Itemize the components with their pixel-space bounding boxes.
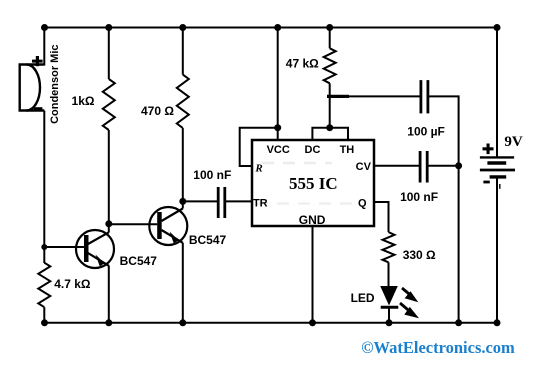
wire left rail middle (mic to 4.7k) — [43, 111, 45, 264]
capacitor C2 100uF — [421, 80, 428, 113]
wire LED to bottom rail — [388, 307, 390, 323]
node top rail 1k — [105, 24, 112, 31]
wire 1k top (rail to resistor) — [108, 28, 110, 80]
capacitor C1 100nF — [218, 187, 225, 218]
wire C3 to right vertical — [427, 165, 458, 167]
wire Q2 emitter to bottom rail — [182, 243, 184, 323]
wire 470 top (rail to resistor) — [182, 28, 184, 75]
wire 330 to LED — [388, 262, 390, 286]
wire VCC line to top rail — [277, 28, 279, 141]
svg-text:1kΩ: 1kΩ — [72, 94, 95, 108]
svg-text:DC: DC — [305, 144, 321, 156]
op-amp/timer U1 555 IC body — [252, 140, 374, 226]
node bottom rail 1k — [105, 319, 112, 326]
svg-text:4.7 kΩ: 4.7 kΩ — [54, 277, 91, 291]
node bottom rail LED — [386, 319, 393, 326]
wire CV pin to C3 — [374, 165, 420, 167]
node bottom rail C right — [455, 319, 462, 326]
svg-text:LED: LED — [351, 291, 375, 305]
wire Q1 base from left rail — [44, 246, 84, 248]
svg-text:R: R — [254, 163, 262, 175]
node bottom rail GND — [309, 319, 316, 326]
mic plus label — [32, 56, 43, 66]
resistor R2 470 — [177, 75, 189, 128]
wire Q2 base from 1k junction — [109, 223, 157, 225]
node junction Q2 collector / 470 / C1 — [179, 198, 186, 205]
svg-text:100 nF: 100 nF — [193, 168, 231, 182]
node bottom rail battery — [494, 319, 501, 326]
svg-text:TR: TR — [253, 198, 268, 210]
LED D1 — [380, 286, 398, 307]
battery plus label — [483, 144, 494, 155]
battery minus label — [483, 181, 489, 184]
svg-text:GND: GND — [299, 213, 326, 227]
battery stray tick — [499, 184, 501, 189]
wire 470 bottom to collector junction — [182, 128, 184, 201]
capacitor C3 100nF — [420, 151, 427, 183]
wire C2 to right vertical — [428, 96, 459, 322]
svg-text:BC547: BC547 — [120, 254, 158, 268]
node junction 1k / Q2 base — [105, 220, 112, 227]
svg-text:TH: TH — [340, 144, 355, 156]
transistor Q1 BC547 — [76, 230, 114, 268]
node top rail 470 — [179, 24, 186, 31]
wire DC-TH bracket — [312, 128, 348, 140]
svg-text:Q: Q — [358, 198, 367, 210]
svg-text:470 Ω: 470 Ω — [141, 104, 174, 118]
node top rail right corner — [494, 24, 501, 31]
ghost dash upper (faint) — [262, 162, 332, 165]
wire GND pin to bottom rail — [312, 226, 314, 323]
wire R pin loop to VCC line — [240, 128, 278, 166]
svg-text:CV: CV — [356, 161, 372, 173]
wire junction to C1 — [183, 200, 218, 202]
resistor R5 330 — [383, 232, 395, 262]
svg-text:555 IC: 555 IC — [289, 174, 338, 193]
ghost dash lower (faint) — [256, 202, 352, 205]
resistor R1 1k — [103, 79, 115, 130]
node junction bracket / 47k — [326, 124, 333, 131]
node base junction Q1 — [41, 244, 47, 250]
svg-text:330 Ω: 330 Ω — [403, 248, 436, 262]
node top rail VCC — [274, 24, 281, 31]
svg-text:BC547: BC547 — [189, 233, 227, 247]
svg-text:Condensor Mic: Condensor Mic — [49, 44, 61, 123]
wire left rail lower (4.7k to bottom rail) — [43, 307, 45, 323]
wire 47k tap to C2 (thick start) — [327, 95, 349, 98]
node top rail 47k — [326, 24, 333, 31]
transistor Q2 BC547 — [149, 207, 187, 245]
wire bottom rail — [45, 322, 498, 324]
node bottom rail left corner — [41, 319, 48, 326]
wire top rail — [45, 27, 498, 29]
wire Q pin to 330 — [374, 202, 389, 232]
condenser mic MIC1 — [20, 65, 45, 111]
wire 47k bottom to bracket junction — [329, 83, 331, 127]
node bottom rail 470 — [179, 319, 186, 326]
battery BT1 9V — [480, 28, 515, 323]
svg-text:47 kΩ: 47 kΩ — [286, 57, 319, 71]
svg-text:©WatElectronics.com: ©WatElectronics.com — [361, 338, 515, 357]
wire C1 to TR pin — [225, 200, 252, 202]
node top rail left corner — [41, 24, 48, 31]
svg-text:9V: 9V — [504, 134, 523, 150]
wire left rail upper (top rail to mic) — [43, 28, 45, 66]
resistor R4 4.7k — [38, 263, 50, 308]
node junction R/VCC — [274, 124, 281, 131]
resistor R3 47k — [324, 48, 336, 83]
svg-text:100 µF: 100 µF — [407, 125, 445, 139]
wire 1k bottom to Q1 collector — [108, 130, 110, 233]
svg-text:VCC: VCC — [267, 144, 290, 156]
wire to C2 — [349, 95, 421, 97]
mic minus label — [34, 107, 43, 110]
wire 47k top (rail to resistor) — [329, 28, 331, 49]
LED light arrow 1 — [402, 288, 418, 302]
wire Q2 collector to junction — [182, 201, 184, 208]
LED light arrow 2 — [400, 303, 419, 318]
node junction C3 / right vertical — [455, 162, 462, 169]
svg-text:100 nF: 100 nF — [400, 190, 438, 204]
wire Q1 emitter to bottom rail — [108, 266, 110, 323]
